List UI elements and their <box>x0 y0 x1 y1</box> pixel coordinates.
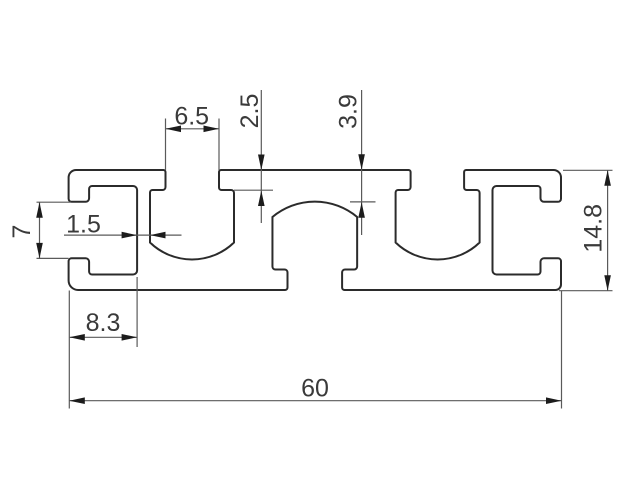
svg-text:8.3: 8.3 <box>86 309 121 337</box>
aluminium extrusion profile cross-section outline <box>69 170 561 290</box>
svg-text:6.5: 6.5 <box>174 102 209 130</box>
dimension 8.3: left slot depth <box>69 277 137 347</box>
dimension 3.9: depth from top face to centre arch apex <box>350 90 376 235</box>
svg-text:1.5: 1.5 <box>66 211 101 239</box>
dimension 60: overall profile width <box>69 291 561 409</box>
svg-text:7: 7 <box>8 225 36 239</box>
svg-text:60: 60 <box>301 374 329 402</box>
dimension 1.5: web wall thickness <box>64 234 182 236</box>
svg-text:14.8: 14.8 <box>580 204 608 253</box>
svg-text:2.5: 2.5 <box>236 94 264 129</box>
dimension 2.5: top flange thickness <box>234 90 273 223</box>
dimension 14.8: overall profile height <box>559 170 613 290</box>
dimension 6.5: top T-slot opening width <box>166 119 220 171</box>
dimension 7: left side slot opening height <box>37 202 72 258</box>
svg-text:3.9: 3.9 <box>335 94 363 129</box>
